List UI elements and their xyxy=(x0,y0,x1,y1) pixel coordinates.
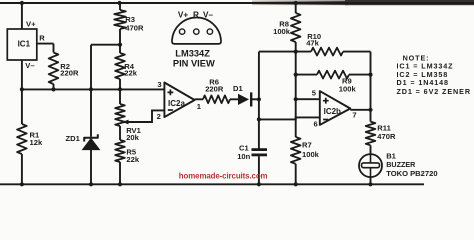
wire RV1-R5 xyxy=(119,126,121,140)
svg-text:5: 5 xyxy=(312,88,317,97)
svg-text:470R: 470R xyxy=(377,132,396,141)
wire ZD1 to rail xyxy=(90,150,92,185)
pin circle V+ xyxy=(179,29,184,34)
svg-text:R: R xyxy=(39,33,45,42)
svg-text:TOKO PB2720: TOKO PB2720 xyxy=(386,169,437,178)
wire output vertical xyxy=(370,52,372,122)
LM334Z package pin view xyxy=(172,18,221,44)
wire feedback top xyxy=(259,51,311,53)
resistor R11 xyxy=(366,122,376,146)
node buzzer-rail xyxy=(368,182,372,186)
node pin5 tap xyxy=(294,97,298,101)
wire 0V bottom rail xyxy=(0,183,424,185)
zener ZD1 xyxy=(84,134,98,141)
svg-text:100k: 100k xyxy=(339,84,357,93)
svg-text:100k: 100k xyxy=(273,27,291,36)
wire C1 column top xyxy=(258,52,260,149)
node ZD1 junction xyxy=(89,87,93,91)
node C1-rail xyxy=(257,182,261,186)
node R8 junction xyxy=(294,50,298,54)
wire R2 bottom xyxy=(53,84,55,89)
wire C1 to rail xyxy=(258,156,260,184)
svg-text:R7: R7 xyxy=(302,141,312,150)
svg-text:220R: 220R xyxy=(205,85,224,94)
resistor R6 xyxy=(203,95,230,103)
svg-text:6: 6 xyxy=(314,120,318,129)
node R9 tap xyxy=(294,73,298,77)
wire RV1 wiper to IC2a pin2 xyxy=(128,110,164,122)
node pin7 junction xyxy=(368,108,372,112)
op-amp IC2b xyxy=(320,91,351,125)
wire ZD1 vertical upper xyxy=(90,45,92,137)
resistor R3 xyxy=(114,10,126,29)
node R1-rail xyxy=(20,182,24,186)
wire RV1 top xyxy=(119,89,121,104)
svg-text:22k: 22k xyxy=(124,69,137,78)
capacitor C1 xyxy=(252,148,268,151)
wire IC2b pin7 out xyxy=(350,109,370,111)
node left-vert junction xyxy=(20,87,24,91)
plus sign IC2a xyxy=(168,90,174,96)
node ZD1-rail xyxy=(89,182,93,186)
svg-text:22k: 22k xyxy=(126,155,139,164)
svg-text:IC2b: IC2b xyxy=(324,107,341,116)
wire pin6 down to R7 xyxy=(295,119,297,137)
resistor R5 xyxy=(115,140,125,162)
svg-text:V–: V– xyxy=(25,61,34,70)
wire buzzer to rail xyxy=(370,177,372,184)
node rail-IC1 junction xyxy=(20,1,24,5)
wire R3-R4 xyxy=(119,29,121,53)
svg-text:1: 1 xyxy=(197,102,202,111)
svg-text:BUZZER: BUZZER xyxy=(386,160,416,169)
potentiometer RV1 xyxy=(115,104,125,126)
svg-text:IC1: IC1 xyxy=(18,39,31,48)
svg-text:homemade-circuits.com: homemade-circuits.com xyxy=(179,171,268,180)
resistor R7 xyxy=(291,137,301,164)
svg-text:R: R xyxy=(193,11,199,20)
svg-text:7: 7 xyxy=(352,111,356,120)
svg-text:3: 3 xyxy=(157,80,161,89)
node D1-C1 junction xyxy=(257,97,261,101)
wire V+ top rail xyxy=(0,2,474,4)
wire R8 to rail xyxy=(295,3,297,13)
wire R5 to rail xyxy=(119,162,121,184)
wire R pin to R2 xyxy=(37,43,54,45)
svg-text:220R: 220R xyxy=(60,69,79,78)
wire feedback vertical xyxy=(295,52,297,120)
wire D1 to node xyxy=(251,98,259,100)
wire pin6 xyxy=(259,117,320,119)
diode D1 xyxy=(238,94,249,105)
node R8-rail xyxy=(294,1,298,5)
node R4-RV1 junction xyxy=(118,87,122,91)
plus sign IC2b xyxy=(323,98,329,104)
wire R11 to buzzer xyxy=(370,145,372,154)
svg-text:V+: V+ xyxy=(178,11,188,20)
wire reference net to IC2a pin3 xyxy=(22,88,165,90)
wire R8 bottom xyxy=(295,42,297,52)
resistor R2 xyxy=(49,53,59,85)
svg-text:12k: 12k xyxy=(30,138,43,147)
op-amp IC1 box (LM334Z) xyxy=(7,29,37,60)
svg-text:100k: 100k xyxy=(302,150,320,159)
wire R6 to D1 xyxy=(230,98,238,100)
resistor R4 xyxy=(115,53,125,79)
wire node-A horizontal y=44.7 xyxy=(91,44,120,46)
svg-text:470R: 470R xyxy=(125,24,144,33)
svg-text:R3: R3 xyxy=(125,15,135,24)
minus sign IC2b xyxy=(323,119,328,121)
svg-text:D1: D1 xyxy=(233,84,243,93)
wire R3 top xyxy=(119,3,121,10)
svg-text:LM334Z: LM334Z xyxy=(175,48,210,58)
wire R4 bottom xyxy=(119,79,121,89)
wire R9 to output column xyxy=(349,74,371,76)
svg-text:ZD1: ZD1 xyxy=(66,134,81,143)
svg-text:2: 2 xyxy=(157,112,161,121)
resistor R8 xyxy=(291,13,301,42)
minus sign IC2a xyxy=(168,109,173,111)
svg-text:V–: V– xyxy=(203,11,213,20)
node R7-rail xyxy=(294,182,298,186)
resistor R10 xyxy=(311,48,343,56)
wire pin5 xyxy=(296,98,320,100)
resistor R1 xyxy=(17,124,27,154)
svg-text:47k: 47k xyxy=(306,38,319,47)
wire IC1 V+ to rail xyxy=(21,3,23,29)
svg-text:20k: 20k xyxy=(126,133,139,142)
node pin6 tap xyxy=(257,117,261,121)
svg-text:D1 = 1N4148: D1 = 1N4148 xyxy=(397,78,449,87)
buzzer B1 xyxy=(359,154,382,177)
svg-text:V+: V+ xyxy=(26,20,36,29)
svg-text:PIN VIEW: PIN VIEW xyxy=(173,59,215,69)
svg-text:ZD1 = 6V2 ZENER: ZD1 = 6V2 ZENER xyxy=(397,87,471,96)
resistor R9 xyxy=(296,74,317,76)
node R5-rail xyxy=(118,182,122,186)
node R3-R4 junction xyxy=(118,43,122,47)
wire R7 to rail xyxy=(295,164,297,185)
op-amp IC2a xyxy=(164,83,194,118)
wire R10 to output column xyxy=(343,51,371,53)
node R2 junction xyxy=(51,87,55,91)
pin circle R xyxy=(194,29,199,34)
pin circle V- xyxy=(207,29,212,34)
wire IC1 V- down xyxy=(21,60,23,124)
svg-text:IC2a: IC2a xyxy=(168,99,185,108)
node R9-output junction xyxy=(368,73,372,77)
wire IC2a pin1 out xyxy=(195,98,203,100)
wire R1 to rail xyxy=(21,154,23,184)
svg-text:10n: 10n xyxy=(237,152,250,161)
node rail-R3 junction xyxy=(117,1,121,5)
